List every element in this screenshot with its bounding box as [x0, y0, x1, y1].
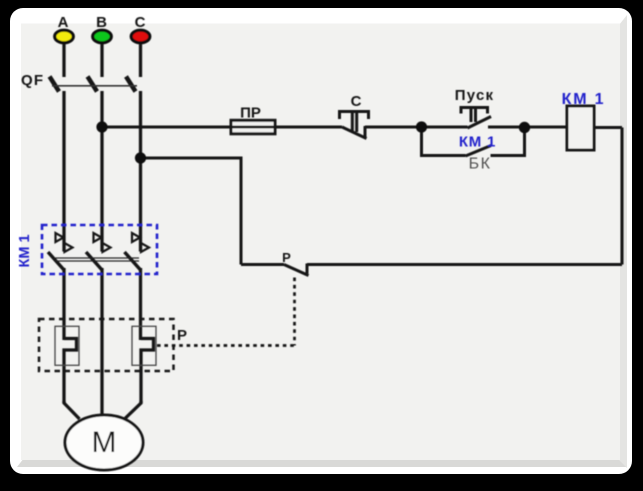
svg-text:B: B [96, 14, 107, 31]
svg-text:QF: QF [21, 72, 44, 89]
svg-text:ПР: ПР [240, 105, 261, 122]
svg-text:Пуск: Пуск [455, 87, 494, 104]
svg-text:P: P [282, 250, 291, 265]
svg-text:C: C [135, 14, 146, 31]
svg-text:С: С [351, 93, 362, 110]
svg-text:М: М [92, 426, 117, 459]
svg-text:P: P [177, 327, 187, 344]
svg-text:КМ 1: КМ 1 [459, 134, 496, 151]
svg-text:КМ 1: КМ 1 [17, 234, 33, 267]
svg-text:A: A [58, 14, 69, 31]
svg-text:БК: БК [469, 156, 492, 173]
svg-text:КМ 1: КМ 1 [562, 91, 606, 108]
